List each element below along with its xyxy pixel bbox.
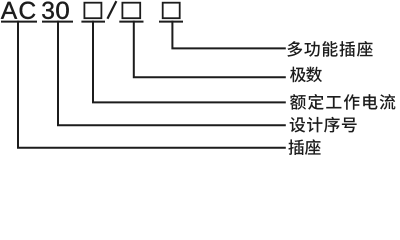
label 额定工作电流 <box>290 94 395 110</box>
label 多功能插座 <box>287 41 372 57</box>
slash separator <box>107 1 116 19</box>
wire 30 to label 设计序号 <box>58 21 286 126</box>
label 设计序号 <box>290 117 357 133</box>
label 极数 <box>290 67 322 83</box>
field box 1 <box>84 3 101 19</box>
model text AC <box>1 2 35 19</box>
wire box3 to label 多功能插座 <box>172 21 285 49</box>
field box 3 <box>163 3 180 19</box>
underline under box1 <box>81 21 105 23</box>
underline under box2 <box>119 21 143 23</box>
model text 30 <box>42 2 69 19</box>
underline under box3 <box>159 21 183 23</box>
underline under AC <box>1 21 37 23</box>
underline under 30 <box>42 21 73 23</box>
field box 2 <box>122 3 140 19</box>
label 插座 <box>288 139 320 155</box>
wire box2 to label 极数 <box>134 21 286 78</box>
wire AC to label 插座 <box>18 21 286 148</box>
wire box1 to label 额定工作电流 <box>93 21 286 103</box>
